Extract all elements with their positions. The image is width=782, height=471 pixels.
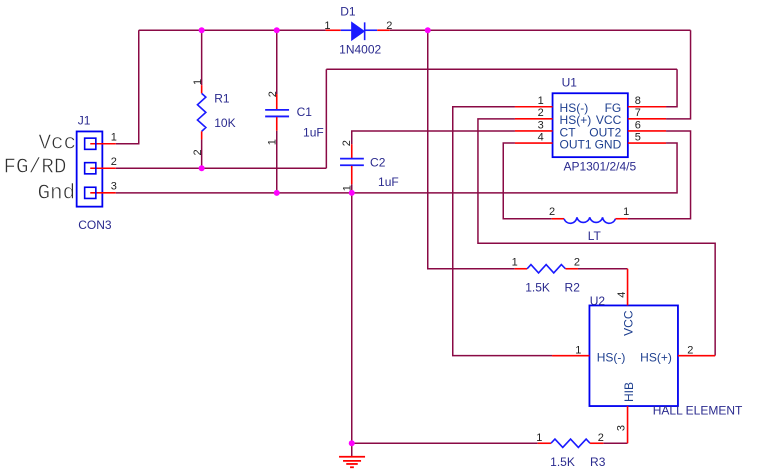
ground	[339, 457, 365, 468]
U1 value AP1301/2/4/5	[563, 159, 636, 173]
wire: branch from rail junction down to R2 pin 1	[428, 30, 515, 269]
svg-text:2: 2	[267, 91, 279, 97]
U2 pin number 3	[616, 425, 628, 431]
svg-text:4: 4	[616, 292, 628, 298]
J1 refdes	[78, 113, 91, 127]
wire: R3 pin 2 to U2 pin 3 stub	[603, 442, 627, 444]
svg-text:2: 2	[341, 140, 353, 146]
inductor LT	[552, 217, 628, 223]
port Gnd	[37, 182, 75, 205]
wire: U1 pin 3 CT to C2 top	[352, 131, 515, 144]
svg-text:1uF: 1uF	[303, 126, 324, 140]
svg-text:3: 3	[538, 119, 544, 131]
R3 pin number 1	[536, 432, 542, 444]
svg-text:LT: LT	[588, 229, 602, 243]
junction Gnd row at C2 bottom	[349, 190, 355, 196]
svg-text:R1: R1	[214, 91, 230, 105]
svg-text:3: 3	[616, 425, 628, 431]
svg-text:1: 1	[192, 79, 204, 85]
svg-text:4: 4	[538, 131, 544, 143]
connector J1	[77, 131, 116, 206]
U1 pin number 4	[538, 131, 544, 143]
R3 value 1.5K	[550, 455, 575, 469]
svg-text:3: 3	[111, 180, 117, 192]
svg-text:GND: GND	[595, 137, 622, 151]
wire: ground drop from Gnd row to ground symbol	[351, 193, 353, 456]
junction FG/RD row at R1 bottom	[199, 165, 205, 171]
R2 value 1.5K	[525, 281, 550, 295]
R2 pin number 2	[574, 257, 580, 269]
C1 pin number 1	[266, 139, 278, 145]
R1 refdes	[214, 91, 230, 105]
svg-text:2: 2	[538, 107, 544, 119]
J1 pin number 2	[111, 156, 117, 168]
svg-text:2: 2	[192, 149, 204, 155]
svg-text:10K: 10K	[214, 116, 235, 130]
LT pin number 1	[623, 206, 629, 218]
R2 refdes	[565, 281, 581, 295]
U1 pin name FG	[605, 101, 622, 115]
D1 pin number 2	[386, 20, 392, 32]
svg-text:U1: U1	[562, 75, 578, 89]
svg-text:2: 2	[111, 156, 117, 168]
wire: C2 bottom to Gnd row	[351, 184, 353, 193]
C2 pin number 2	[341, 140, 353, 146]
C2 pin number 1	[341, 185, 353, 191]
junction on rail at R1	[199, 27, 205, 33]
svg-text:2: 2	[687, 344, 693, 356]
svg-text:1.5K: 1.5K	[550, 455, 575, 469]
R1 pin number 2	[192, 149, 204, 155]
svg-text:2: 2	[386, 20, 392, 32]
U1 pin number 5	[635, 131, 641, 143]
svg-text:1: 1	[111, 131, 117, 143]
wire: C1 bottom lead to Gnd row	[276, 131, 278, 193]
LT pin number 2	[549, 206, 555, 218]
wire: FG riser at x=326 from FG/RD row up	[325, 69, 327, 168]
U1 pin number 2	[538, 107, 544, 119]
svg-text:FG/RD: FG/RD	[3, 157, 66, 180]
resistor R1	[197, 85, 205, 139]
wire: VCC riser down to U1 pin 7	[666, 30, 691, 119]
svg-text:1: 1	[512, 257, 518, 269]
U1 pin name GND	[595, 137, 622, 151]
junction on rail at C1	[274, 27, 280, 33]
U1 pin name CT	[560, 125, 577, 139]
U1 pin name HS(-)	[560, 101, 589, 115]
U2 pin name HS(-)	[597, 350, 626, 364]
svg-text:1: 1	[623, 206, 629, 218]
wire: top rail from J1 pin1 riser to D1 anode	[139, 29, 326, 31]
svg-text:1uF: 1uF	[378, 175, 399, 189]
wire: U1 pin 1 HS(-) to U2 pin 1	[453, 107, 552, 356]
U1 pin name OUT1	[560, 137, 592, 151]
R1 pin number 1	[192, 79, 204, 85]
D1 pin number 1	[324, 20, 330, 32]
port Vcc	[38, 132, 76, 155]
U1 pin name OUT2	[589, 125, 621, 139]
svg-text:C1: C1	[297, 105, 313, 119]
LT refdes	[588, 229, 602, 243]
R3 refdes	[590, 455, 606, 469]
svg-text:1: 1	[536, 432, 542, 444]
wire: top rail from D1 cathode to VCC riser	[390, 29, 691, 31]
wire: drop to U1 pin 8	[666, 69, 677, 107]
svg-text:7: 7	[635, 107, 641, 119]
IC U1	[515, 93, 666, 157]
wire: C1 top lead to rail	[276, 30, 278, 94]
wire: U1 pin 2 HS(+) to U2 pin 2	[478, 119, 715, 356]
svg-text:HIB: HIB	[622, 382, 636, 402]
U1 pin number 1	[538, 95, 544, 107]
svg-text:2: 2	[574, 257, 580, 269]
junction on rail at R2 branch	[425, 27, 431, 33]
resistor R2	[515, 265, 578, 273]
wire: R1 bottom lead to FG/RD row	[201, 139, 203, 168]
C1 pin number 2	[267, 91, 279, 97]
wire: LT pin 1 to U1 pin 6 OUT2	[628, 131, 691, 219]
port FG/RD	[3, 157, 66, 180]
U1 pin number 8	[635, 95, 641, 107]
capacitor C2	[340, 144, 364, 184]
U1 refdes	[562, 75, 578, 89]
svg-text:1: 1	[538, 95, 544, 107]
svg-text:CON3: CON3	[78, 218, 112, 232]
U2 pin name HS(+)	[640, 350, 672, 364]
svg-text:HS(+): HS(+)	[640, 350, 672, 364]
wire: J1 pin 1 to top rail riser	[116, 30, 139, 144]
U1 pin name VCC	[596, 113, 622, 127]
svg-text:Vcc: Vcc	[38, 132, 76, 155]
wire: Gnd row from J1 pin 3 to U1 pin 5 drop	[116, 143, 677, 193]
svg-text:U2: U2	[590, 294, 606, 308]
svg-text:J1: J1	[78, 113, 91, 127]
capacitor C1	[265, 94, 289, 131]
U2 refdes	[590, 294, 606, 308]
svg-text:HS(-): HS(-)	[597, 350, 626, 364]
C1 refdes	[297, 105, 313, 119]
junction Gnd row at C1 bottom	[274, 190, 280, 196]
U2 pin number 1	[575, 344, 581, 356]
R2 pin number 1	[512, 257, 518, 269]
svg-text:1N4002: 1N4002	[339, 42, 381, 56]
J1 pin number 3	[111, 180, 117, 192]
svg-text:1: 1	[575, 344, 581, 356]
svg-text:Gnd: Gnd	[37, 182, 75, 205]
C1 value 1uF	[303, 126, 324, 140]
junction ground symbol node	[349, 440, 355, 446]
svg-text:VCC: VCC	[622, 310, 636, 336]
svg-text:8: 8	[635, 95, 641, 107]
U1 pin number 3	[538, 119, 544, 131]
svg-text:OUT1: OUT1	[560, 137, 592, 151]
resistor R3	[538, 439, 604, 447]
U2 pin number 2	[687, 344, 693, 356]
svg-text:1: 1	[324, 20, 330, 32]
R1 value 10K	[214, 116, 235, 130]
U2 pin name VCC	[622, 310, 636, 336]
svg-text:D1: D1	[340, 5, 356, 19]
D1 value 1N4002	[339, 42, 381, 56]
svg-text:6: 6	[635, 119, 641, 131]
svg-text:HALL ELEMENT: HALL ELEMENT	[653, 403, 743, 417]
C2 value 1uF	[378, 175, 399, 189]
svg-text:AP1301/2/4/5: AP1301/2/4/5	[563, 159, 636, 173]
U1 pin number 7	[635, 107, 641, 119]
C2 refdes	[370, 155, 386, 169]
U1 pin number 6	[635, 119, 641, 131]
svg-text:5: 5	[635, 131, 641, 143]
svg-text:1: 1	[266, 139, 278, 145]
diode D1	[326, 22, 390, 40]
svg-text:R2: R2	[565, 281, 581, 295]
J1 value CON3	[78, 218, 112, 232]
wire: R2 pin 2 to U2 pin 4 stub	[578, 268, 628, 270]
U2 value HALL ELEMENT	[653, 403, 743, 417]
hall element U2	[552, 269, 715, 444]
J1 pin number 1	[111, 131, 117, 143]
U2 pin number 4	[616, 292, 628, 298]
U2 pin name HIB	[622, 382, 636, 402]
wire: U1 pin 4 OUT1 to LT pin 2	[503, 143, 552, 219]
svg-text:C2: C2	[370, 155, 386, 169]
svg-text:R3: R3	[590, 455, 606, 469]
svg-text:2: 2	[549, 206, 555, 218]
R3 pin number 2	[598, 432, 604, 444]
svg-text:2: 2	[598, 432, 604, 444]
wire: R1 top lead to rail	[201, 30, 203, 85]
wire: FG upper run from riser x=326 to x=676.8	[326, 68, 677, 70]
svg-text:1.5K: 1.5K	[525, 281, 550, 295]
wire: FG/RD row from J1 pin 2	[116, 167, 327, 169]
U1 pin name HS(+)	[560, 113, 592, 127]
wire: R3 row from ground junction to R3 pin 1	[352, 442, 538, 444]
D1 refdes	[340, 5, 356, 19]
